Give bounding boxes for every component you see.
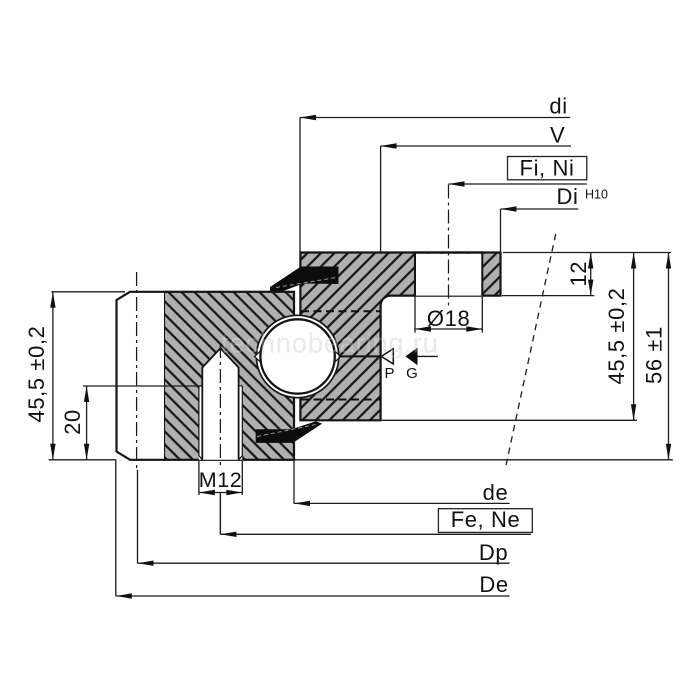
- svg-text:45,5 ±0,2: 45,5 ±0,2: [24, 326, 49, 423]
- arrowhead Fi,Ni: [449, 181, 465, 186]
- grease nipple symbol G (filled triangle): [405, 348, 417, 366]
- arrowheads 20: [84, 386, 89, 402]
- arrowheads 12: [588, 253, 593, 269]
- arrowheads right 45,5: [631, 253, 636, 269]
- arrowhead De: [116, 593, 132, 598]
- right 45.5 dim: [382, 253, 637, 421]
- svg-text:De: De: [479, 572, 508, 597]
- label box Fe, Ne: [438, 509, 532, 533]
- arrowheads M12: [199, 490, 215, 495]
- svg-text:H10: H10: [585, 188, 608, 202]
- 56 dim: [295, 253, 673, 460]
- Fe,Ne dim: [220, 495, 531, 534]
- plug symbol P (open triangle): [381, 349, 393, 364]
- arrowhead Di: [501, 206, 517, 211]
- De dim: [116, 460, 510, 596]
- grease port leader line: [339, 355, 382, 357]
- svg-text:Fi, Ni: Fi, Ni: [520, 156, 575, 181]
- Di: [501, 209, 579, 252]
- 12 dim: [502, 253, 594, 296]
- gear tooth zone (unsectioned): [117, 292, 165, 460]
- inner ring (right, sectioned, with flange): [300, 253, 500, 421]
- svg-text:45,5 ±0,2: 45,5 ±0,2: [604, 288, 629, 385]
- raceway relief cusps: [255, 350, 262, 363]
- arrowheads left 45,5: [50, 292, 55, 308]
- svg-text:di: di: [549, 94, 567, 119]
- O18 dim: [415, 296, 482, 333]
- arrowheads 56: [666, 253, 671, 269]
- hidden (hardened zone) dashed lines in inner ring: [301, 311, 380, 399]
- bottom seal: [256, 421, 322, 443]
- M12 centerline: [219, 344, 221, 468]
- svg-text:Di: Di: [557, 184, 579, 209]
- svg-text:20: 20: [60, 409, 85, 435]
- arrowhead Fe,Ne: [220, 532, 236, 537]
- right top extension: [503, 252, 671, 254]
- svg-text:G: G: [406, 365, 418, 382]
- svg-text:technobearing.ru: technobearing.ru: [221, 328, 439, 359]
- label box Fi, Ni: [508, 157, 587, 180]
- raceway groove (white cut around ball): [256, 315, 338, 397]
- V: [381, 146, 571, 252]
- M12 dim: [199, 461, 242, 534]
- dashed diagonal (pinion flank line): [505, 234, 556, 470]
- bolt hole centerline (flange): [448, 185, 450, 309]
- de dim: [294, 460, 510, 504]
- svg-text:M12: M12: [199, 468, 243, 492]
- svg-text:Dp: Dp: [479, 540, 508, 565]
- Dp dim: [138, 470, 510, 563]
- svg-text:12: 12: [566, 261, 591, 287]
- ball: [260, 319, 334, 393]
- top seal: [270, 267, 339, 292]
- pitch circle centerline Dp: [136, 272, 138, 472]
- arrowheads O18: [415, 326, 431, 331]
- arrowhead di: [300, 115, 316, 120]
- left 45.5 dim: [49, 292, 125, 460]
- bolt hole in flange (white cut): [415, 254, 482, 296]
- svg-text:P: P: [384, 365, 394, 382]
- di: [300, 118, 570, 253]
- grease symbol G tail line: [418, 355, 438, 357]
- M12 tapped hole (white cut in outer ring): [199, 348, 242, 460]
- svg-text:V: V: [550, 122, 565, 147]
- svg-text:56 ±1: 56 ±1: [642, 326, 667, 384]
- svg-text:Fe, Ne: Fe, Ne: [451, 507, 521, 532]
- svg-text:de: de: [483, 480, 509, 505]
- Fi,Ni: [449, 183, 587, 185]
- outer ring (left, sectioned, gear ring): [164, 292, 294, 460]
- arrowhead de: [294, 501, 310, 506]
- arrowhead V: [381, 143, 397, 148]
- 20 dim: [83, 386, 203, 460]
- arrowhead Dp: [138, 561, 154, 566]
